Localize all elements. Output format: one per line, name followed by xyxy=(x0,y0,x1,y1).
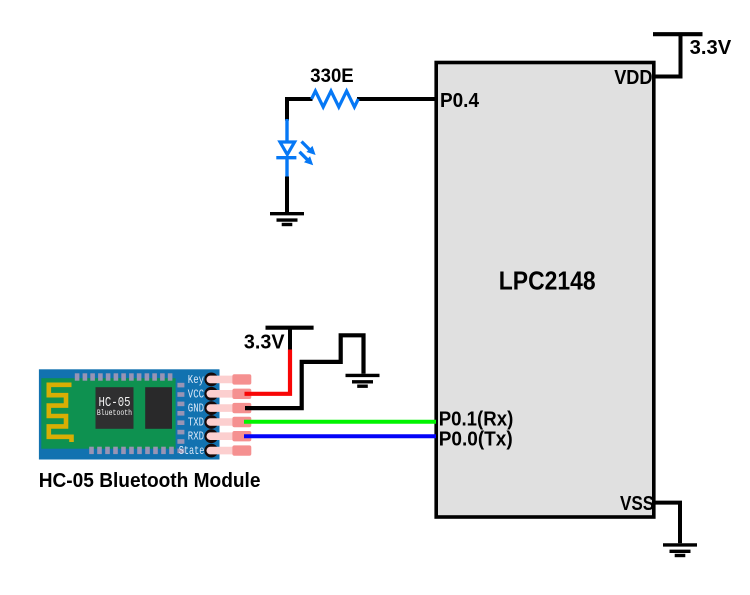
svg-text:VCC: VCC xyxy=(188,387,204,401)
HC-05 pin lead State xyxy=(207,447,251,455)
HC-05 pin lead GND xyxy=(207,404,251,412)
power symbol 3.3V (module) bar xyxy=(266,326,314,330)
pin label VDD xyxy=(614,67,652,89)
svg-text:Bluetooth: Bluetooth xyxy=(97,409,132,418)
ground (under LED) xyxy=(270,214,304,225)
power symbol 3.3V (module) stem xyxy=(288,328,292,351)
svg-text:VSS: VSS xyxy=(620,493,654,515)
HC-05 pin tip GND xyxy=(232,403,251,413)
svg-text:330E: 330E xyxy=(310,66,353,87)
HC-05 bottom pad row xyxy=(89,447,174,454)
pin label VSS xyxy=(620,493,654,515)
ground (bottom right) xyxy=(663,545,697,556)
LED D1 cathode lead xyxy=(285,158,288,178)
HC-05 module board xyxy=(39,369,220,459)
wire VDD pin to 3.3V rail xyxy=(653,34,681,77)
HC-05 pin ring Key xyxy=(204,373,218,387)
svg-text:P0.0(Tx): P0.0(Tx) xyxy=(439,429,513,451)
wire LED cathode to ground xyxy=(285,177,289,213)
HC-05 chip with label xyxy=(96,387,134,429)
HC-05 pin ring RXD xyxy=(204,429,218,443)
HC-05 second chip xyxy=(145,387,172,429)
HC-05 chip text Bluetooth xyxy=(97,409,132,418)
ground (module) xyxy=(346,375,380,386)
HC-05 pin tip RXD xyxy=(232,431,251,441)
svg-text:P0.1(Rx): P0.1(Rx) xyxy=(439,409,514,431)
HC-05 pin label Key xyxy=(188,373,204,387)
HC-05 pin tip TXD xyxy=(232,417,251,427)
wire resistor to LED corner xyxy=(287,99,313,121)
svg-text:Key: Key xyxy=(188,373,204,387)
pin label P0.0(Tx) xyxy=(439,429,513,451)
HC-05 pin label RXD xyxy=(188,430,204,444)
value label 330E xyxy=(310,66,353,87)
HC-05 pin tip State xyxy=(232,445,251,455)
HC-05 antenna (yellow meander) xyxy=(49,385,72,442)
wire TXD to P0.1(Rx) (green) xyxy=(244,420,436,424)
pin label P0.4 xyxy=(440,90,480,112)
LED D1 emission arrow 2 xyxy=(300,152,314,166)
HC-05 module PCB (green) xyxy=(41,378,175,449)
HC-05 pin lead Key xyxy=(207,376,251,384)
HC-05 pin lead RXD xyxy=(207,432,251,440)
value label 3.3V (top right) xyxy=(690,37,732,59)
HC-05 pin label VCC xyxy=(188,387,204,401)
HC-05 pin ring GND xyxy=(204,401,218,415)
LED D1 emission arrow 1 xyxy=(302,142,316,156)
svg-text:RXD: RXD xyxy=(188,430,204,444)
svg-text:HC-05 Bluetooth Module: HC-05 Bluetooth Module xyxy=(39,470,261,492)
LED D1 anode lead xyxy=(285,119,288,141)
svg-text:GND: GND xyxy=(188,402,204,416)
wire GND to ground (black) xyxy=(245,335,364,408)
svg-text:P0.4: P0.4 xyxy=(440,90,480,112)
HC-05 pin tip Key xyxy=(232,374,251,384)
HC-05 pin ring State xyxy=(204,444,218,458)
HC-05 chip text HC-05 xyxy=(99,395,131,411)
HC-05 pin lead VCC xyxy=(207,390,251,398)
IC U1 label LPC2148 xyxy=(499,266,596,296)
svg-text:TXD: TXD xyxy=(188,416,204,430)
HC-05 pin label State xyxy=(179,444,205,458)
caption HC-05 Bluetooth Module xyxy=(39,470,261,492)
wire VSS pin to ground xyxy=(653,503,680,544)
value label 3.3V (module) xyxy=(244,331,285,353)
HC-05 pin tip VCC xyxy=(232,389,251,399)
HC-05 pin lead TXD xyxy=(207,418,251,426)
wire P0.4 to resistor xyxy=(357,97,436,101)
pin label P0.1(Rx) xyxy=(439,409,514,431)
svg-text:3.3V: 3.3V xyxy=(244,331,285,353)
LED D1 cathode bar xyxy=(276,156,296,159)
power symbol 3.3V (top right) bar xyxy=(653,32,703,36)
HC-05 top pad row xyxy=(75,373,173,380)
HC-05 pin label TXD xyxy=(188,416,204,430)
LED D1 triangle xyxy=(280,142,295,155)
wire VCC to 3.3V (red) xyxy=(245,350,291,394)
HC-05 pin label GND xyxy=(188,402,204,416)
resistor R1 330E zigzag xyxy=(312,91,359,107)
svg-text:3.3V: 3.3V xyxy=(690,37,732,59)
svg-text:State: State xyxy=(179,444,205,458)
IC U1 LPC2148 body xyxy=(436,63,654,518)
svg-text:LPC2148: LPC2148 xyxy=(499,266,596,296)
HC-05 pin ring VCC xyxy=(204,387,218,401)
HC-05 pin ring TXD xyxy=(204,415,218,429)
HC-05 right pad column xyxy=(177,383,184,453)
svg-text:VDD: VDD xyxy=(614,67,652,89)
wire RXD to P0.0(Tx) (blue) xyxy=(244,434,436,438)
